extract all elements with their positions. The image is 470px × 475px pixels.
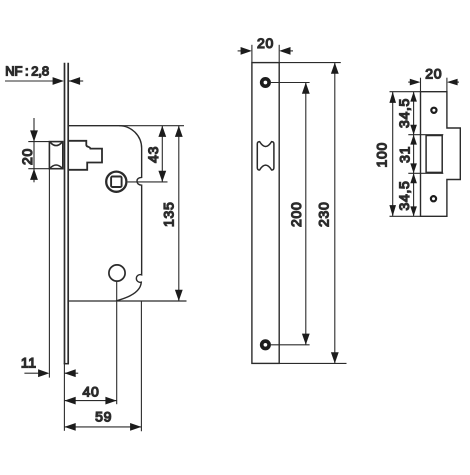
front faceplate outline xyxy=(252,63,279,364)
front latch cutout xyxy=(257,142,274,170)
strike plate outline xyxy=(421,92,461,217)
dim 20 strike dimension line xyxy=(408,81,459,83)
dim 230 arrows xyxy=(331,63,339,364)
svg-text:40: 40 xyxy=(83,384,100,400)
dim 100 extension lines xyxy=(390,92,421,217)
latch bolt head (front of plate) xyxy=(49,142,62,169)
dim 20 front dimension line xyxy=(238,50,293,52)
latch bolt body profile xyxy=(69,141,102,170)
keyhole extension line (40) xyxy=(116,281,118,404)
dim 100 arrows xyxy=(389,92,396,217)
spindle square hole xyxy=(111,177,122,188)
dim 59 arrows xyxy=(64,423,141,431)
screw hole extension lines (200) xyxy=(271,83,310,345)
spindle follower circle xyxy=(106,172,126,192)
dim 59 right extension line xyxy=(140,301,142,431)
faceplate datum extension line xyxy=(63,364,65,431)
dim 20 latch dimension line xyxy=(33,118,35,182)
dim 40 arrows xyxy=(64,397,116,405)
keyhole circle xyxy=(109,265,125,281)
svg-text:20: 20 xyxy=(257,35,274,51)
dim 20 latch extension lines xyxy=(28,142,49,169)
svg-text:NF : 2,8: NF : 2,8 xyxy=(5,63,49,78)
dim 43 dimension line xyxy=(161,126,163,182)
svg-text:20: 20 xyxy=(19,148,35,165)
svg-text:135: 135 xyxy=(161,202,177,227)
svg-text:200: 200 xyxy=(288,202,304,227)
svg-text:230: 230 xyxy=(316,202,332,227)
strike section tick line lower xyxy=(408,172,443,174)
svg-text:20: 20 xyxy=(425,66,442,82)
dim 40 dimension line xyxy=(64,400,116,402)
strike section tick line upper xyxy=(408,134,443,136)
latch head extension line xyxy=(48,169,50,378)
dim 11 dimension line xyxy=(24,372,78,374)
front faceplate top corner extensions xyxy=(252,45,279,63)
svg-text:11: 11 xyxy=(21,355,37,371)
front screw hole bottom xyxy=(262,341,269,348)
NF leader arrows xyxy=(53,77,81,85)
lock case top edge extension line (43/135) xyxy=(119,125,184,127)
dim 20 latch arrows xyxy=(30,130,38,180)
dim 43 arrows xyxy=(158,126,166,182)
dim 200 arrows xyxy=(302,83,310,345)
strike plate top corner extensions xyxy=(421,78,447,92)
svg-text:59: 59 xyxy=(95,409,112,425)
front screw hole top xyxy=(262,79,269,86)
dim 230 dimension line xyxy=(334,63,336,364)
dim 200 dimension line xyxy=(305,83,307,345)
strike cutout box xyxy=(426,136,442,173)
spindle extension line (43) xyxy=(128,181,168,183)
svg-text:34,5: 34,5 xyxy=(396,98,412,128)
svg-text:43: 43 xyxy=(145,146,161,163)
svg-text:34,5: 34,5 xyxy=(396,180,412,210)
dim 34,5/31/34,5 arrows xyxy=(410,92,417,217)
strike screw hole bottom xyxy=(431,196,436,201)
NF leader line xyxy=(5,80,83,82)
dim 230 extension lines xyxy=(279,63,346,364)
svg-text:31: 31 xyxy=(396,146,412,163)
dim 100 dimension line xyxy=(392,92,394,217)
strike screw hole top xyxy=(431,108,436,113)
dim 11 arrows xyxy=(38,369,76,377)
svg-text:100: 100 xyxy=(373,142,389,167)
dim 20 front arrows xyxy=(241,47,291,55)
dim 59 dimension line xyxy=(64,426,141,428)
dim 135 arrows xyxy=(175,126,183,301)
lock case outline xyxy=(69,126,142,301)
dim 135 dimension line xyxy=(178,126,180,301)
lock case bottom edge + 135 extension line xyxy=(69,300,187,302)
dim 20 strike arrows xyxy=(410,79,458,86)
dim 34,5/31/34,5 dimension line xyxy=(413,92,415,217)
faceplate side view xyxy=(64,63,69,364)
